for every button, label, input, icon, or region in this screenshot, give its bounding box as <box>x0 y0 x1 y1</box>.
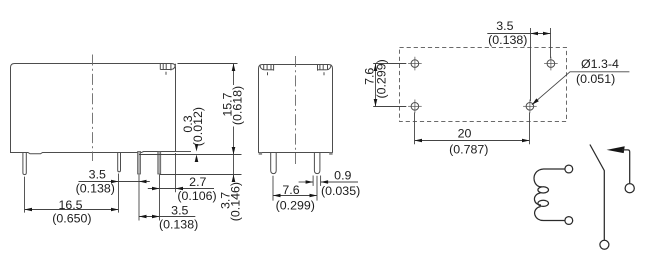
front pin right <box>314 153 320 174</box>
svg-text:(0.035): (0.035) <box>321 184 360 198</box>
relay coil <box>534 169 565 221</box>
svg-text:(0.138): (0.138) <box>159 218 198 232</box>
front view right foot <box>329 153 332 155</box>
dim 0.9 extension lines <box>312 176 314 186</box>
dim 7.6 bottom view line <box>375 64 377 107</box>
svg-text:16.5: 16.5 <box>58 198 82 212</box>
seating plane line <box>139 154 242 156</box>
dim 20 extension lines <box>414 113 416 145</box>
dim 20 line <box>415 140 530 142</box>
switch contact terminal <box>625 184 634 193</box>
svg-text:(0.012): (0.012) <box>191 107 205 146</box>
svg-text:(0.138): (0.138) <box>488 33 527 47</box>
svg-text:(0.138): (0.138) <box>76 182 115 196</box>
svg-text:(0.787): (0.787) <box>449 143 488 157</box>
pin tip reference line <box>160 174 242 176</box>
svg-text:3.5: 3.5 <box>89 167 106 181</box>
dim 3.5 lower line <box>139 216 195 218</box>
pin 1 <box>23 153 26 175</box>
dim 7.6 bottom view extension lines <box>373 63 406 65</box>
svg-text:(0.106): (0.106) <box>177 189 216 203</box>
left side view body <box>11 64 176 154</box>
svg-text:0.9: 0.9 <box>334 169 351 183</box>
mounting hole top-right <box>544 57 558 71</box>
svg-text:(0.618): (0.618) <box>231 86 245 125</box>
dim 3.7 line <box>233 155 235 182</box>
pin 4 <box>158 152 161 175</box>
coil terminal top <box>565 165 573 173</box>
front view left foot <box>259 153 262 155</box>
bottom view dashed outline <box>400 48 567 122</box>
dim 16.5 line <box>25 209 119 211</box>
switch common terminal <box>600 240 609 249</box>
dim 15.7 line <box>233 64 235 86</box>
top height extension <box>178 63 238 65</box>
dim 0.9 line <box>299 181 314 183</box>
body right edge extension <box>175 153 177 192</box>
dim 3.5 top line <box>487 33 551 35</box>
front view body <box>259 65 333 153</box>
front view left mounting tab <box>260 65 274 76</box>
pin4 extension line <box>159 175 161 221</box>
left view top vent tab <box>160 64 175 75</box>
dim 7.6 front line <box>273 195 317 197</box>
svg-text:(0.650): (0.650) <box>52 211 91 225</box>
front view right mounting tab <box>318 65 332 76</box>
svg-text:(0.146): (0.146) <box>229 182 243 221</box>
bottom step extension <box>176 151 192 153</box>
mounting hole bottom-right <box>523 100 537 114</box>
svg-text:3.5: 3.5 <box>496 19 513 33</box>
left view centerline <box>92 55 94 162</box>
svg-text:(0.299): (0.299) <box>276 199 315 213</box>
svg-text:7.6: 7.6 <box>282 183 299 197</box>
mounting hole bottom-left <box>408 100 422 114</box>
switch contact arrow <box>607 146 625 153</box>
svg-text:Ø1.3-4: Ø1.3-4 <box>581 57 619 71</box>
front pin left <box>271 153 277 174</box>
dim 3.5 top extension lines <box>530 28 532 101</box>
dim 3.5 upper line <box>79 181 150 183</box>
svg-text:(0.051): (0.051) <box>576 72 615 86</box>
dim 16.5 extension lines <box>24 177 26 213</box>
hole diameter callout leader <box>532 72 630 105</box>
svg-text:20: 20 <box>458 127 472 141</box>
dim 0.3 arrows <box>195 144 199 152</box>
svg-text:3.5: 3.5 <box>171 203 188 217</box>
switch blade and common <box>590 145 604 241</box>
pin3 extension line <box>138 175 140 221</box>
svg-text:2.7: 2.7 <box>189 175 206 189</box>
svg-text:(0.299): (0.299) <box>374 59 388 98</box>
pin 3 <box>138 152 141 175</box>
mounting hole top-left <box>408 57 422 71</box>
front view centerline <box>295 56 297 166</box>
pin 2 <box>118 153 121 172</box>
dim 2.7 line <box>148 188 214 190</box>
dim 7.6 front extension lines <box>272 176 274 201</box>
coil terminal bottom <box>565 217 573 225</box>
